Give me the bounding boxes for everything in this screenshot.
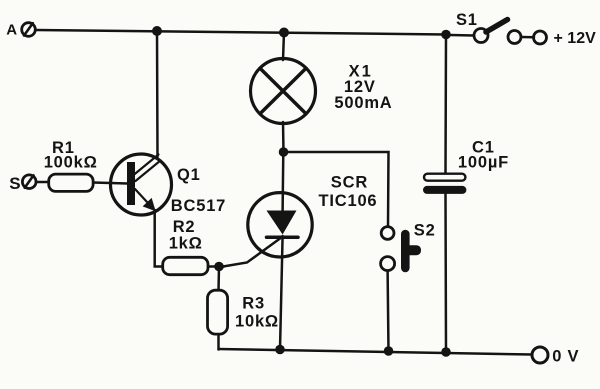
- svg-text:BC517: BC517: [171, 197, 226, 215]
- svg-text:10kΩ: 10kΩ: [235, 313, 279, 331]
- svg-text:1kΩ: 1kΩ: [169, 235, 203, 253]
- svg-text:0 V: 0 V: [552, 348, 579, 366]
- svg-text:500mA: 500mA: [334, 94, 392, 112]
- svg-text:Q1: Q1: [177, 166, 201, 184]
- svg-text:R3: R3: [242, 295, 265, 313]
- svg-text:SCR: SCR: [331, 173, 368, 191]
- svg-text:A: A: [6, 22, 18, 39]
- svg-text:S1: S1: [456, 11, 478, 29]
- svg-text:S2: S2: [414, 221, 436, 239]
- svg-text:+ 12V: + 12V: [554, 30, 597, 47]
- svg-text:S: S: [9, 174, 21, 193]
- svg-text:100µF: 100µF: [458, 154, 509, 172]
- svg-text:TIC106: TIC106: [319, 192, 378, 210]
- svg-text:R2: R2: [173, 218, 196, 236]
- svg-text:100kΩ: 100kΩ: [44, 154, 98, 172]
